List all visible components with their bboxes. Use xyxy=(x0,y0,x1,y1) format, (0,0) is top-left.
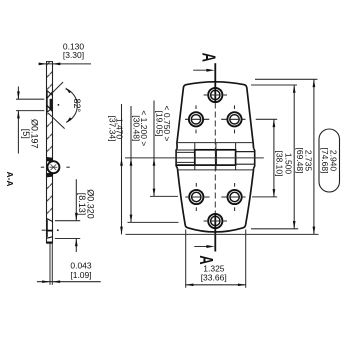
82 deg dimension arc xyxy=(66,89,78,122)
left dims: 0.750 dimension line xyxy=(153,101,155,197)
hole bottom-center xyxy=(204,214,227,228)
bottom hole center dot xyxy=(57,229,59,231)
82 deg angle side lines xyxy=(48,82,63,97)
countersunk hole (top) cone outline xyxy=(47,91,52,113)
bottom hole centerline tick xyxy=(42,229,46,231)
82 deg arc arrowhead bottom xyxy=(66,117,72,123)
leaf section hatch xyxy=(46,62,53,243)
svg-text:[3.30]: [3.30] xyxy=(63,50,84,60)
right dims: 2.735 xyxy=(251,84,297,86)
svg-text:[33.66]: [33.66] xyxy=(201,273,227,283)
section line A-A dashed middle xyxy=(214,103,216,214)
bottom hole dark center bar xyxy=(46,230,52,232)
knuckle centerline ticks xyxy=(41,166,44,168)
svg-text:< 0.750 >[19.05]: < 0.750 >[19.05] xyxy=(155,106,173,142)
knuckle pin cross lines xyxy=(49,164,57,170)
leaf top edge xyxy=(46,61,53,63)
0.043 arrowheads xyxy=(42,280,50,283)
hole top-left xyxy=(185,105,209,133)
dia 0.320 extension line top xyxy=(55,220,80,222)
svg-text:82°: 82° xyxy=(72,98,82,112)
right barrel bulge edge xyxy=(254,148,255,168)
leaf right surface line xyxy=(52,62,54,243)
svg-text:2.940[74.68]: 2.940[74.68] xyxy=(320,148,339,174)
hole bottom-left xyxy=(185,183,209,211)
1.200 extension line xyxy=(128,221,179,223)
svg-text:[1.09]: [1.09] xyxy=(70,270,91,280)
0.130 arrowheads xyxy=(39,63,47,66)
1.325 dimension line xyxy=(186,284,246,286)
knuckle dark wedge top xyxy=(47,157,54,162)
left barrel bulge edge xyxy=(176,148,177,169)
right dims: 2.940 xyxy=(255,78,318,80)
countersink center dot xyxy=(58,104,60,106)
leaf left surface line xyxy=(46,62,48,243)
counterbored hole (bottom) outline xyxy=(47,219,52,239)
0.043 dimension line xyxy=(37,281,101,283)
dia 0.320 extension line bottom xyxy=(55,238,80,240)
svg-text:< 1.200 >[30.48]: < 1.200 >[30.48] xyxy=(132,110,150,146)
dia 0.197 dimension line xyxy=(17,87,19,154)
section arrow top xyxy=(193,69,207,71)
svg-text:1.470[37.34]: 1.470[37.34] xyxy=(107,116,124,142)
svg-text:1.500[38.10]: 1.500[38.10] xyxy=(275,151,294,177)
left dims: 1.470 dimension line xyxy=(121,104,123,234)
section line A-A thick bottom segment xyxy=(214,214,216,252)
svg-text:A-A: A-A xyxy=(5,171,15,186)
stadium frame around 2.940 xyxy=(319,129,340,192)
left dims: 1.200 dimension line xyxy=(130,106,132,222)
hole top-center xyxy=(204,88,227,102)
hole bottom-right xyxy=(221,183,245,211)
dia 0.197 extension line bottom xyxy=(16,110,44,112)
svg-text:A: A xyxy=(198,53,218,62)
knuckle dark wedge bottom xyxy=(47,173,54,178)
hinge outline upper leaf xyxy=(177,82,254,148)
section arrow bottom xyxy=(194,246,207,248)
dia 0.320 arrowheads xyxy=(75,213,78,221)
knuckle thin lines left section xyxy=(176,150,195,162)
svg-text:2.735[69.48]: 2.735[69.48] xyxy=(295,148,314,174)
0.130 dimension line xyxy=(39,63,92,65)
pin centerline xyxy=(125,157,264,159)
82 deg arc arrowhead top xyxy=(65,87,71,93)
countersunk hole far-side dark strip xyxy=(50,99,53,111)
dia 0.197 arrowheads xyxy=(17,91,20,99)
hole top-right xyxy=(221,105,245,133)
upper leaf bottom edge xyxy=(177,142,253,144)
right dims: 1.500 xyxy=(256,118,278,120)
knuckle thin lines right section xyxy=(236,152,255,165)
lower leaf extension lines xyxy=(49,243,51,284)
section line A-A thick top segment xyxy=(214,63,216,102)
knuckle divider verticals xyxy=(195,143,236,170)
knuckle box center-left xyxy=(195,150,216,165)
lower leaf top edge xyxy=(178,169,254,171)
knuckle box center-right xyxy=(216,150,236,165)
0.750 extension line xyxy=(150,195,178,197)
leaf bottom end cap xyxy=(46,242,53,244)
dia 0.320 dimension line xyxy=(75,179,77,252)
dia 0.197 extension line top xyxy=(16,98,44,100)
knuckle thick bottom left xyxy=(176,164,195,166)
hinge outline lower leaf xyxy=(178,169,254,232)
svg-text:Ø0.320[8.13]: Ø0.320[8.13] xyxy=(77,189,96,219)
knuckle barrel circle xyxy=(47,161,59,173)
1.325 extension lines xyxy=(185,230,187,288)
